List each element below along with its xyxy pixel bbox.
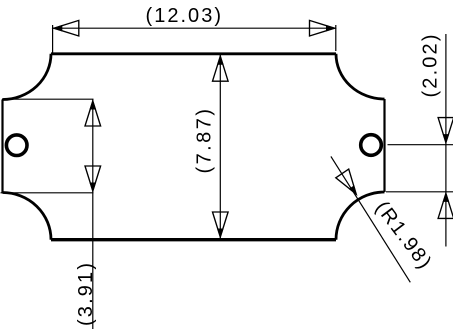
dimension 2.02: lower arrow (points up) (438, 192, 453, 218)
dimension 7.87: top arrow (213, 55, 229, 81)
dimension 2.02: lower extension line (from plate corner) (386, 191, 453, 193)
dimension 7.87: bottom arrow (213, 212, 229, 238)
plate outline: top-left concave fillet (3, 54, 52, 100)
radius R1.98: arrow (points at fillet) (336, 169, 363, 199)
dimension 12.03: left extension line (52, 25, 54, 54)
svg-text:(3.91): (3.91) (75, 263, 97, 326)
plate outline: top edge (51, 52, 336, 55)
dimension 3.91: top extension line (2, 98, 94, 100)
plate outline: bottom-left concave fillet (3, 193, 52, 240)
dimension 12.03: dimension line (53, 27, 336, 29)
svg-text:(7.87): (7.87) (194, 109, 216, 174)
hole left (6, 135, 27, 156)
dimension 2.02: dimension line (445, 34, 447, 247)
svg-text:(2.02): (2.02) (420, 35, 442, 98)
radius R1.98: leader line (331, 156, 410, 282)
plate outline: left edge (1, 100, 3, 193)
dimension 2.02: upper extension line (from hole centre) (388, 144, 453, 146)
dimension 3.91: bottom extension line (1, 192, 94, 194)
plate outline: top-right concave fillet (336, 54, 385, 99)
dimension 2.02: upper arrow (points down) (438, 118, 453, 144)
plate outline: right edge (383, 99, 385, 192)
hole right (361, 135, 382, 156)
dimension 12.03: left arrow (53, 20, 79, 36)
dimension 12.03: right extension line (335, 25, 337, 51)
dimension 3.91: dimension line (92, 99, 94, 329)
dimension 7.87: dimension line (219, 55, 221, 239)
dimension 3.91: bottom arrow (85, 166, 101, 192)
svg-text:(12.03): (12.03) (146, 5, 222, 27)
dimension 3.91: top arrow (85, 100, 101, 126)
dimension 12.03: right arrow (310, 20, 336, 36)
plate outline: bottom-right concave fillet (336, 192, 385, 240)
plate outline: bottom edge (51, 238, 336, 241)
